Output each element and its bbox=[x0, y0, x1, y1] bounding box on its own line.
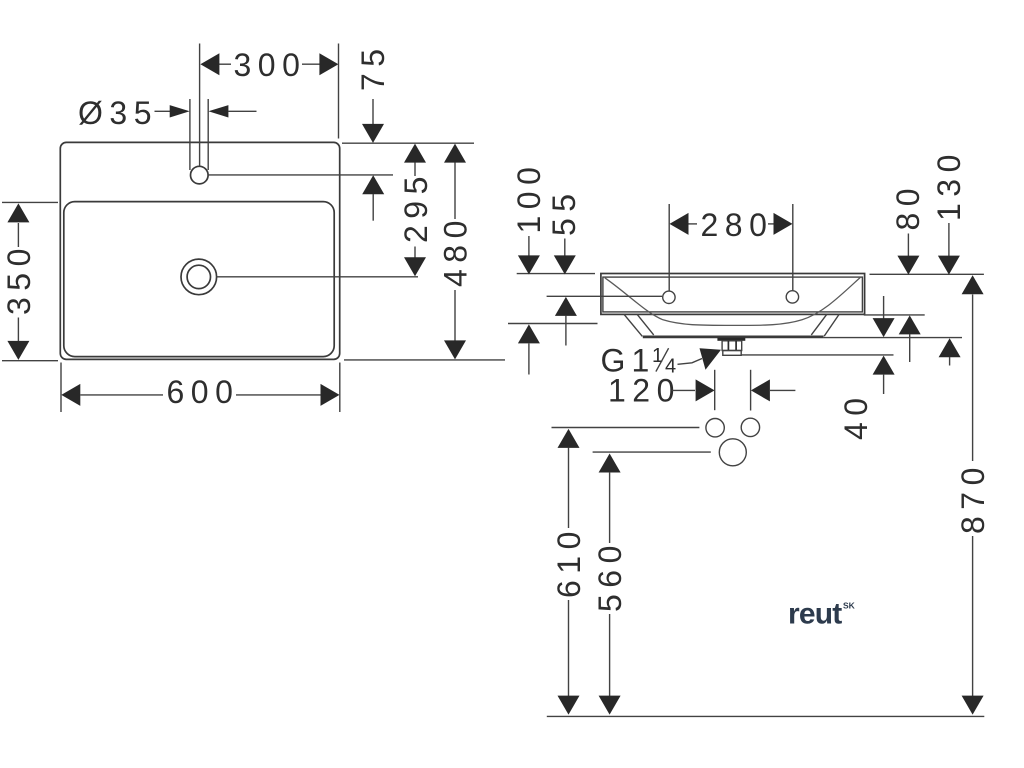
ext sink-bottom right bbox=[344, 359, 505, 361]
svg-text:SK: SK bbox=[843, 601, 856, 611]
ext 350 bottom bbox=[2, 360, 58, 362]
dim 610 bbox=[551, 429, 587, 715]
hole ext right bbox=[207, 99, 209, 170]
dim 55 bbox=[546, 187, 582, 345]
dim 300 line bbox=[219, 63, 320, 65]
svg-text:610: 610 bbox=[551, 525, 587, 598]
ext 600 left bbox=[60, 363, 62, 413]
dim 480 bbox=[438, 144, 474, 360]
flange bottom ext L3 bbox=[742, 354, 894, 356]
ext 280 right bbox=[792, 204, 794, 290]
ext 600 right bbox=[339, 363, 341, 413]
svg-text:130: 130 bbox=[931, 148, 967, 221]
supply hole left bbox=[706, 419, 724, 437]
ext 610 bbox=[552, 427, 700, 429]
O35 arrow left bbox=[208, 105, 256, 117]
drain inner circle bbox=[187, 265, 210, 288]
dim 100 bbox=[511, 161, 547, 375]
svg-text:75: 75 bbox=[355, 42, 391, 91]
svg-text:120: 120 bbox=[608, 372, 681, 408]
ext sink-top left (front view) bbox=[517, 273, 595, 275]
drain thread bbox=[722, 341, 742, 351]
skirt right inner bbox=[811, 315, 826, 335]
washbasin outer rim (top view) bbox=[60, 142, 339, 359]
overflow hole left bbox=[663, 291, 675, 303]
O35 leader bbox=[155, 110, 171, 112]
hole ext left bbox=[189, 99, 191, 170]
dim 870 bbox=[955, 275, 991, 714]
svg-text:40: 40 bbox=[838, 391, 874, 440]
ext 100 bottom bbox=[508, 323, 598, 325]
overflow hole right bbox=[786, 291, 798, 303]
label O35 bbox=[78, 95, 158, 131]
supply hole right bbox=[741, 418, 759, 436]
dim 295 bbox=[398, 144, 434, 277]
label G 1 1/4 bbox=[601, 343, 677, 379]
skirt left outer bbox=[624, 315, 642, 337]
svg-text:100: 100 bbox=[511, 161, 547, 234]
basin front rim inner bbox=[603, 277, 863, 312]
svg-text:870: 870 bbox=[955, 461, 991, 534]
drain flange top bbox=[717, 338, 745, 341]
bowl front curve bbox=[605, 278, 860, 326]
ext 560 bbox=[593, 451, 711, 453]
svg-text:295: 295 bbox=[398, 170, 434, 243]
dim 350 bbox=[1, 203, 37, 360]
floor line bbox=[547, 715, 985, 717]
ext 300 right bbox=[338, 44, 340, 139]
svg-text:reut: reut bbox=[788, 598, 842, 631]
faucet hole bbox=[191, 166, 209, 184]
ext sink-top right (front view) bbox=[870, 273, 984, 275]
skirt right outer bbox=[824, 315, 839, 337]
G label leader bbox=[678, 348, 722, 370]
O35 arrow right bbox=[170, 105, 190, 117]
rim bottom ext L1 bbox=[864, 314, 925, 316]
dim 40 bbox=[838, 296, 895, 440]
svg-text:300: 300 bbox=[234, 47, 307, 83]
drain centerline ext bbox=[217, 276, 418, 278]
dim 80 bbox=[890, 182, 926, 362]
ext 350 top bbox=[2, 201, 58, 203]
basin front rim outer bbox=[601, 274, 865, 315]
dim 75 bbox=[355, 42, 391, 220]
washbasin inner basin bbox=[64, 202, 334, 357]
dim 120 bbox=[608, 372, 795, 408]
skirt left inner bbox=[637, 315, 653, 335]
svg-text:600: 600 bbox=[167, 374, 240, 410]
drain hole front bbox=[719, 439, 746, 466]
svg-text:480: 480 bbox=[438, 214, 474, 287]
faucet centerline ext bbox=[208, 174, 393, 176]
skirt bottom bbox=[643, 336, 824, 339]
logo reut bbox=[788, 598, 856, 631]
dim 300 text bbox=[234, 47, 307, 83]
svg-text:Ø35: Ø35 bbox=[78, 95, 158, 131]
dim 560 bbox=[592, 454, 628, 715]
svg-text:55: 55 bbox=[546, 187, 582, 236]
drain flange bottom bbox=[723, 351, 741, 356]
svg-text:1: 1 bbox=[652, 345, 663, 367]
dim 280 bbox=[670, 207, 793, 243]
ext 120 right bbox=[750, 370, 752, 411]
svg-text:80: 80 bbox=[890, 182, 926, 231]
svg-text:350: 350 bbox=[1, 242, 37, 315]
skirt bottom ext L2 bbox=[824, 337, 962, 339]
ext 280 left bbox=[668, 204, 670, 291]
dim 300 arrows bbox=[200, 53, 338, 75]
ext sink-top right bbox=[342, 142, 474, 144]
svg-text:280: 280 bbox=[701, 207, 774, 243]
dim 130 bbox=[931, 148, 967, 365]
dim 600 bbox=[61, 374, 339, 410]
centerline faucet bbox=[199, 44, 201, 167]
ext 120 left bbox=[714, 370, 716, 410]
drain outer circle bbox=[181, 259, 217, 295]
hole-center ext left bbox=[547, 295, 662, 297]
svg-text:560: 560 bbox=[592, 539, 628, 612]
